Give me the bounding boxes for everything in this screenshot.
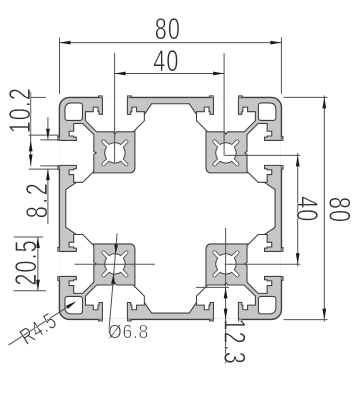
corner cavity: [65, 296, 82, 313]
svg-text:80: 80: [322, 197, 354, 223]
dim 20.5: dimension line: [37, 237, 39, 291]
quadrant bottom-left: [57, 235, 145, 323]
profile body 80x80: [59, 97, 281, 319]
dim 12.3: dimension line through bottom-right slot: [225, 228, 227, 363]
corner cavity: [258, 296, 275, 313]
svg-text:40: 40: [153, 45, 179, 78]
T-slot cavity (side face): [197, 97, 256, 134]
dim 10.2: top-face reference tick: [31, 96, 46, 98]
T-slot cavity (side face): [59, 123, 96, 182]
dim 20.5: reference lines: [14, 236, 43, 238]
dim 6.8: arrows at hole edges: [114, 244, 118, 254]
quadrant top-left: [57, 95, 145, 183]
dim 80 top: extension lines: [59, 38, 61, 95]
svg-text:10.2: 10.2: [4, 87, 37, 133]
centre chamber: [66, 104, 275, 313]
corner cavity: [65, 103, 82, 120]
dim 40 right: dimension line: [297, 153, 299, 267]
T-slot cavity (side face): [245, 235, 282, 294]
dim 80 top: dimension line: [60, 42, 282, 44]
dim 10.2: dimension line: [30, 92, 32, 166]
dim 8.2: dimension line lower part: [47, 169, 49, 224]
svg-text:12.3: 12.3: [218, 319, 251, 365]
quadrant bottom-right: [197, 235, 285, 323]
T-slot cavity (top face): [85, 97, 144, 134]
dim 80 right: extension lines: [284, 96, 328, 98]
svg-text:Ø6.8: Ø6.8: [108, 322, 149, 343]
dim 8.2: dimension line upper part: [47, 117, 49, 139]
core hole 6.8 with flutes: [215, 159, 220, 164]
T-slot cavity (side face): [85, 283, 144, 320]
T-slot cavity (top face): [197, 283, 256, 320]
slot lip reference lines left: [29, 134, 59, 136]
centre line through bottom-left hole: [75, 263, 156, 265]
dim 10.2 / 8.2 arrows on x=30.7: [29, 140, 33, 151]
dim R4.5: leader line and arrow: [9, 303, 75, 346]
core hole 6.8 with flutes: [121, 159, 126, 164]
dim 80 right: dimension line: [323, 95, 325, 321]
svg-text:8.2: 8.2: [21, 181, 54, 219]
dim 12.3: arrows: [224, 287, 228, 298]
dim 40 right: centre lines through right holes: [225, 154, 300, 156]
dim 6.8: diameter line through bottom-left hole: [109, 234, 117, 333]
dim 12.3: cavity floor reference line: [196, 286, 229, 288]
svg-text:20.5: 20.5: [10, 239, 43, 285]
dim 40 top: dimension line: [115, 73, 225, 75]
corner cavity: [258, 103, 275, 120]
svg-text:80: 80: [155, 13, 181, 46]
core hole 6.8 with flutes: [121, 253, 126, 258]
dim 40 top: centre lines through top holes: [114, 53, 116, 164]
core hole 6.8 with flutes: [215, 253, 220, 258]
T-slot cavity (top face): [245, 123, 282, 182]
T-slot cavity (top face): [59, 235, 96, 294]
quadrant top-right: [197, 95, 285, 183]
svg-text:40: 40: [290, 196, 323, 222]
